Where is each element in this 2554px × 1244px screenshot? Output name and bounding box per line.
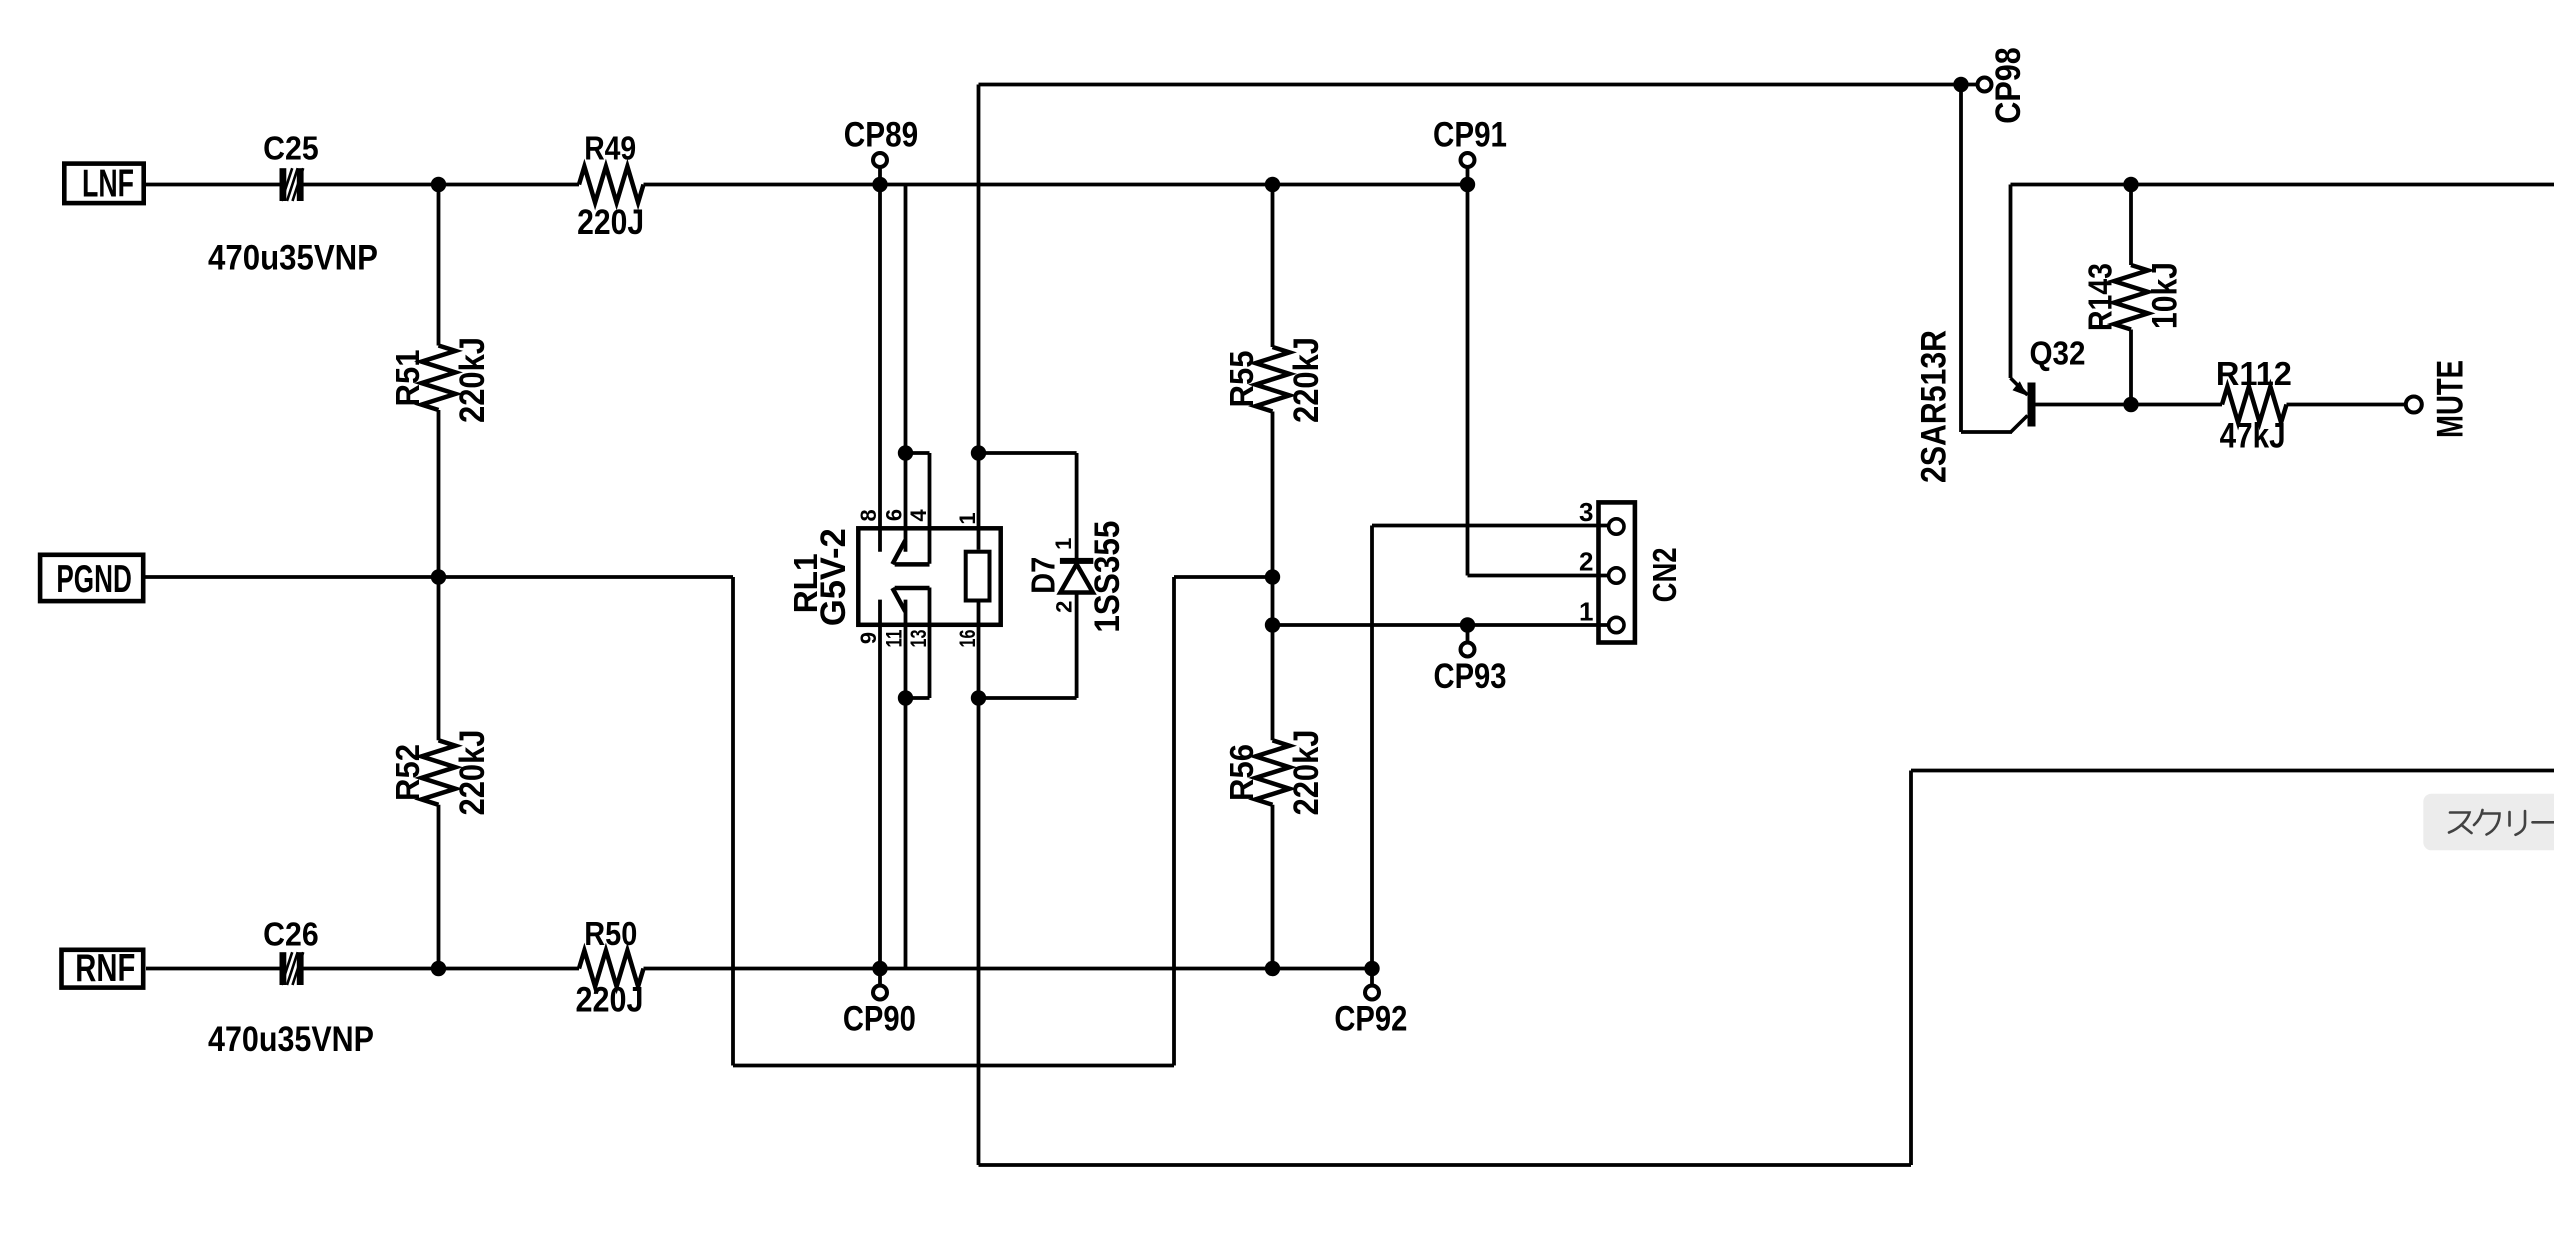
resistor R112 [2222, 387, 2287, 423]
CN2 pin 2 circle [1609, 568, 1624, 583]
wire relay pin8 [878, 185, 882, 552]
wire Q32 base [2036, 403, 2132, 407]
wire base to R112 [2131, 403, 2222, 407]
junction R52/RNF [431, 961, 446, 976]
resistor R143 [2114, 265, 2148, 330]
CN2 pin 1 circle [1609, 617, 1624, 632]
svg-text:470u35VNP: 470u35VNP [208, 1020, 374, 1060]
svg-text:CN2: CN2 [1648, 547, 1684, 602]
wire LNF to C25 [146, 183, 280, 187]
wire relay pin16 drop [977, 602, 981, 1165]
svg-text:R143: R143 [2082, 263, 2119, 331]
wire coil-drive top [979, 83, 1962, 87]
wire pin13 jog [906, 696, 930, 700]
junction CP92 [1364, 961, 1379, 976]
svg-text:220kJ: 220kJ [1287, 730, 1326, 816]
wire R49 to CP91 [644, 183, 1468, 187]
test point CP92 circle [1365, 986, 1379, 1000]
test point CP91 circle [1461, 153, 1475, 167]
wire R50 to CP92 [644, 967, 1373, 971]
wire PGND bottom [733, 1064, 1174, 1068]
wire to Q32 emitter [1961, 430, 2012, 434]
junction relay pin6/4 [898, 445, 913, 460]
global label PGND box [40, 555, 143, 601]
wire R51 top [437, 185, 441, 346]
junction R56/RNF [1265, 961, 1280, 976]
svg-text:220kJ: 220kJ [453, 337, 492, 423]
wire relay pin13 [928, 588, 932, 699]
wire CN2 pin3 [1372, 524, 1608, 528]
svg-text:13: 13 [908, 629, 932, 647]
wire pin3 to CP92 [1370, 526, 1374, 969]
wire CP98 drop [1959, 85, 1963, 433]
wire R143 top [2129, 185, 2133, 266]
tooltip overlay [2423, 794, 2554, 851]
resistor R49 [579, 167, 644, 203]
svg-text:R112: R112 [2216, 355, 2292, 392]
svg-text:CP91: CP91 [1433, 114, 1507, 154]
junction D7 bottom [971, 690, 986, 705]
svg-text:2: 2 [1052, 601, 1077, 613]
wire CP98 stub [1961, 83, 1978, 87]
test point CP98 circle [1978, 78, 1992, 92]
junction R55 bottom [1265, 569, 1280, 584]
svg-text:220J: 220J [577, 202, 644, 242]
resistor R50 [579, 951, 644, 987]
junction D7 top [971, 445, 986, 460]
svg-text:2SAR513R: 2SAR513R [1913, 330, 1953, 483]
diode D7 1SS355 [1060, 558, 1093, 593]
svg-text:R52: R52 [389, 744, 426, 801]
svg-text:RNF: RNF [75, 947, 135, 990]
global label LNF box [64, 164, 143, 204]
svg-text:PGND: PGND [56, 558, 131, 601]
svg-text:R51: R51 [389, 349, 426, 406]
wire right riser [1909, 771, 1913, 1166]
test point CP90 circle [873, 986, 887, 1000]
wire C25 to R49 [303, 183, 579, 187]
wire CP91 stub [1466, 168, 1470, 185]
wire CN2 pin2 [1468, 574, 1609, 578]
svg-text:CP98: CP98 [1989, 47, 2029, 123]
junction CP93 [1460, 617, 1475, 632]
capacitor C25 [280, 168, 304, 201]
svg-text:47kJ: 47kJ [2220, 415, 2286, 455]
wire relay pin6 drop [904, 185, 908, 454]
wire R56 bottom [1271, 805, 1275, 969]
wire Q32 collector rail [2011, 183, 2554, 187]
svg-text:1: 1 [1579, 596, 1593, 626]
svg-text:9: 9 [856, 632, 881, 644]
CN2 pin 3 circle [1609, 519, 1624, 534]
resistor R55 [1256, 347, 1290, 412]
svg-text:CP89: CP89 [844, 114, 918, 154]
wire relay pin9 [878, 600, 882, 969]
wire Q32 collector drop [2009, 185, 2013, 379]
svg-text:G5V-2: G5V-2 [814, 528, 854, 626]
wire to right edge [1911, 769, 2554, 773]
junction CP91 [1460, 177, 1475, 192]
resistor R56 [1256, 740, 1290, 805]
junction relay pin11/13 [898, 690, 913, 705]
svg-text:C26: C26 [263, 915, 318, 953]
wire CN2 pin1 [1273, 623, 1609, 627]
svg-text:MUTE: MUTE [2428, 360, 2470, 438]
relay RL1 coil [966, 552, 990, 601]
svg-text:470u35VNP: 470u35VNP [208, 239, 378, 278]
wire D7 bottom [1075, 593, 1079, 699]
wire pin4 jog [906, 451, 930, 455]
wire relay pin4 [928, 453, 932, 564]
connector CN2 body [1599, 502, 1635, 642]
wire R55-R56 [1271, 412, 1275, 741]
svg-text:R49: R49 [584, 129, 636, 167]
svg-text:6: 6 [882, 509, 907, 521]
wire relay pin11 [904, 600, 908, 969]
svg-text:R55: R55 [1223, 350, 1260, 407]
svg-text:1: 1 [1051, 538, 1076, 550]
junction R51/LNF [431, 177, 446, 192]
wire R55 top [1271, 185, 1275, 348]
resistor R51 [422, 346, 456, 411]
capacitor C26 [280, 952, 304, 985]
svg-text:8: 8 [856, 509, 881, 521]
svg-text:CP93: CP93 [1434, 656, 1507, 695]
junction R143 top [2123, 177, 2138, 192]
wire D7 return [979, 696, 1077, 700]
wire PGND to R55/R56 [1174, 575, 1273, 579]
svg-text:4: 4 [906, 509, 931, 522]
wire R51-R52 [437, 410, 441, 740]
wire R112 to MUTE [2287, 403, 2407, 407]
wire bottom run [979, 1163, 1912, 1167]
wire CP92 stub [1370, 969, 1374, 986]
resistor R52 [422, 740, 456, 805]
relay RL1 G5V-2 body [858, 528, 1000, 625]
svg-text:D7: D7 [1025, 557, 1062, 594]
svg-text:3: 3 [1579, 497, 1593, 527]
test point CP89 circle [873, 153, 887, 167]
svg-text:R50: R50 [584, 915, 637, 952]
svg-text:2: 2 [1579, 546, 1593, 576]
wire CP91 drop [1466, 185, 1470, 576]
svg-text:R56: R56 [1223, 744, 1260, 801]
wire C26 to R50 [303, 967, 579, 971]
junction CP89 [872, 177, 887, 192]
svg-text:1SS355: 1SS355 [1088, 521, 1127, 633]
junction CP90 [872, 961, 887, 976]
junction CP98 [1953, 77, 1968, 92]
global label RNF box [62, 950, 144, 988]
wire relay pin1 drop [977, 85, 981, 550]
relay RL1 upper contact [892, 540, 929, 564]
wire R143 bottom [2129, 330, 2133, 405]
svg-text:CP90: CP90 [843, 999, 916, 1038]
svg-text:220kJ: 220kJ [1287, 337, 1326, 423]
svg-text:Q32: Q32 [2030, 335, 2086, 372]
svg-text:10kJ: 10kJ [2144, 262, 2184, 329]
wire to D7 cathode [979, 451, 1077, 455]
wire PGND drop [731, 577, 735, 1066]
wire CP90 stub [878, 969, 882, 986]
svg-text:16: 16 [957, 629, 981, 647]
junction R143/base [2123, 397, 2138, 412]
wire D7 top [1075, 453, 1079, 558]
svg-text:CP92: CP92 [1334, 999, 1407, 1038]
MUTE terminal circle [2406, 397, 2422, 413]
junction R55 top [1265, 177, 1280, 192]
svg-text:C25: C25 [263, 129, 318, 167]
relay RL1 lower contact [892, 588, 929, 612]
wire R52 bottom [437, 805, 441, 969]
junction PGND/R51/R52 [431, 569, 446, 584]
wire PGND run [146, 575, 734, 579]
wire CP89 stub [878, 168, 882, 185]
transistor Q32 2SAR513R [2011, 378, 2036, 432]
svg-text:1: 1 [955, 512, 980, 524]
wire CP93 stub [1466, 625, 1470, 642]
svg-text:220kJ: 220kJ [453, 730, 492, 816]
junction pin1 line [1265, 617, 1280, 632]
svg-text:220J: 220J [576, 980, 644, 1020]
wire PGND riser [1172, 577, 1176, 1066]
wire relay pin6 [904, 453, 908, 552]
svg-text:LNF: LNF [82, 163, 134, 206]
test point CP93 circle [1461, 643, 1475, 657]
wire RNF to C26 [146, 967, 280, 971]
svg-text:11: 11 [882, 629, 907, 647]
